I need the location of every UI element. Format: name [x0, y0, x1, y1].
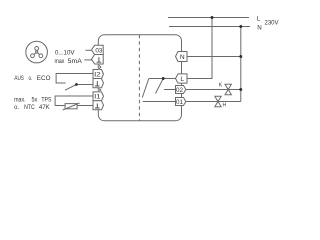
svg-text:max5mA: max5mA — [55, 58, 83, 65]
svg-text:I1: I1 — [94, 94, 101, 101]
svg-text:H: H — [223, 103, 227, 109]
svg-text:03: 03 — [95, 47, 102, 54]
svg-text:01: 01 — [176, 99, 183, 106]
svg-text:N: N — [180, 54, 185, 61]
svg-text:N: N — [257, 25, 261, 32]
svg-text:I2: I2 — [94, 71, 101, 78]
svg-text:L: L — [180, 76, 184, 83]
svg-text:max.5xTPS: max.5xTPS — [14, 96, 51, 103]
svg-text:L: L — [257, 15, 261, 22]
svg-text:230V: 230V — [265, 19, 280, 26]
svg-text:02: 02 — [176, 87, 183, 94]
svg-text:0...10V: 0...10V — [55, 50, 75, 57]
